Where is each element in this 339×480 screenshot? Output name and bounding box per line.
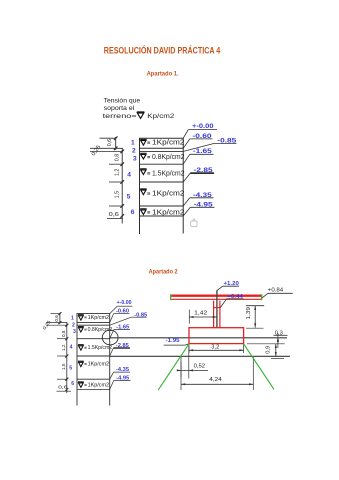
svg-text:1Kp/cm2: 1Kp/cm2 — [152, 191, 185, 198]
svg-text:0,6: 0,6 — [58, 384, 68, 389]
svg-text:1Kp/cm2: 1Kp/cm2 — [88, 362, 110, 368]
hand cursor — [191, 219, 198, 227]
svg-text:0,9: 0,9 — [266, 346, 272, 354]
svg-text:0,8: 0,8 — [115, 154, 121, 161]
elevation callout -2.85 (diagram 1) — [183, 167, 214, 182]
svg-text:3,2: 3,2 — [211, 345, 219, 351]
soil column 1 left wall — [139, 138, 141, 234]
svg-text:1Kp/cm2: 1Kp/cm2 — [88, 382, 110, 388]
svg-text:0,25: 0,25 — [91, 144, 103, 157]
svg-text:0,52: 0,52 — [194, 364, 206, 370]
footing rectangle (red) — [189, 328, 244, 344]
dim chain 2: ticks — [58, 312, 61, 315]
column 1 stratum boundary -0.85 — [140, 150, 184, 152]
svg-text:1,5: 1,5 — [61, 363, 66, 370]
svg-text:1,5: 1,5 — [115, 191, 121, 198]
pedestal right wall (red) — [219, 301, 221, 328]
elevation callout -1.65 (diagram 2) — [110, 325, 130, 339]
pedestal left wall (red) — [213, 301, 215, 328]
elevation callout -0.60 (diagram 1) — [183, 133, 212, 149]
elevation callout -4.35 (diagram 1) — [183, 192, 213, 206]
column 2 top line — [77, 313, 111, 315]
svg-text:+-0.00: +-0.00 — [117, 300, 132, 306]
dim 0,9 (right vertical) — [266, 344, 284, 359]
svg-text:1Kp/cm2: 1Kp/cm2 — [88, 315, 110, 321]
svg-text:+-0.00: +-0.00 — [192, 123, 214, 130]
elevation +0.84 — [262, 287, 293, 297]
svg-text:1: 1 — [131, 140, 135, 147]
column 1 stratum boundary -4.95 — [140, 215, 184, 217]
svg-text:3: 3 — [73, 329, 76, 335]
beam top flange (red) — [171, 295, 262, 297]
svg-text:0,6: 0,6 — [107, 139, 113, 146]
svg-text:6: 6 — [71, 381, 74, 387]
green spread line left — [158, 344, 189, 390]
soil column 1 right wall — [182, 138, 184, 233]
beam bottom line (red) — [171, 298, 262, 300]
svg-text:4,24: 4,24 — [209, 377, 222, 383]
svg-text:0,6: 0,6 — [54, 315, 59, 322]
column 1 top line (level 0.00) — [139, 137, 184, 139]
detail circle at -1.65 — [102, 330, 118, 345]
svg-text:4: 4 — [127, 171, 131, 178]
stratum label row: sigma = 0.8Kp/cm2 — [140, 153, 146, 159]
dim chain 1: extension lines — [100, 137, 117, 139]
elevation callout -4.95 (diagram 1) — [183, 201, 214, 216]
column axis line — [216, 290, 218, 328]
svg-text:1Kp/cm2: 1Kp/cm2 — [152, 140, 185, 147]
elevation callout -4.35 (diagram 2) — [110, 367, 130, 379]
green tick at beam right end — [261, 294, 263, 300]
dim 4,24 — [181, 357, 253, 390]
stratum label row: sigma = 1Kp/cm2 — [140, 189, 146, 195]
elevation callout -0.60 (diagram 2) — [110, 309, 130, 323]
svg-text:soporta el: soporta el — [104, 105, 135, 112]
svg-text:Kp/cm2: Kp/cm2 — [147, 113, 175, 120]
column 1 stratum boundary -1.65 — [140, 163, 184, 165]
column 2 stratum boundary -4.95 — [77, 389, 110, 391]
elevation callout +-0.00 (diagram 1) — [183, 123, 217, 138]
column 2 stratum boundary -0.85 — [77, 324, 110, 326]
elevation callout -2.85 (diagram 2) — [110, 343, 130, 356]
svg-text:6: 6 — [131, 209, 135, 216]
svg-text:-1.95: -1.95 — [166, 338, 180, 344]
stratum label row 2: sigma = 1Kp/cm2 — [78, 361, 84, 366]
svg-text:3: 3 — [133, 155, 137, 162]
column 1 stratum boundary -4.35 — [140, 205, 184, 207]
column 2 stratum boundary -2.85 — [77, 355, 110, 357]
ground line -2.85 extended — [110, 355, 290, 357]
dim chain 1: ticks — [114, 136, 118, 140]
stratum label row 2: sigma = 1Kp/cm2 — [78, 382, 84, 387]
column 1 stratum boundary -2.85 — [140, 181, 184, 183]
svg-text:0,6: 0,6 — [109, 212, 119, 218]
dim 3,2 — [189, 344, 244, 353]
dim chain 2: vertical lower — [66, 322, 68, 393]
green tick at beam left end — [170, 294, 172, 300]
elevation -1.95 — [164, 338, 189, 345]
dim 0,52 — [177, 346, 208, 379]
dim chain 2: extension lines — [51, 313, 61, 315]
svg-text:1: 1 — [71, 315, 74, 321]
svg-text:5: 5 — [69, 366, 72, 372]
stratum label row: sigma = 1Kp/cm2 — [140, 139, 146, 145]
stratum label row 2: sigma = 1Kp/cm2 — [78, 315, 84, 320]
svg-text:5: 5 — [127, 194, 131, 201]
dim chain 2: vertical upper — [59, 313, 61, 324]
stratum label row: sigma = 1.5Kp/cm2 — [140, 169, 146, 175]
elevation callout -4.95 (diagram 2) — [110, 375, 131, 389]
svg-text:Apartado 2: Apartado 2 — [149, 268, 178, 275]
elevation callout -1.65 (diagram 1) — [183, 148, 213, 164]
soil column 2 left wall — [76, 314, 78, 406]
svg-text:1,2: 1,2 — [61, 344, 66, 351]
svg-text:Apartado 1.: Apartado 1. — [147, 70, 179, 77]
stratum label row 2: sigma = 0.8Kp/cm2 — [78, 327, 84, 332]
svg-text:+0.84: +0.84 — [268, 287, 283, 293]
svg-text:terreno=: terreno= — [103, 113, 137, 120]
svg-text:1.5Kp/cm2: 1.5Kp/cm2 — [152, 170, 185, 177]
svg-text:1,2: 1,2 — [115, 169, 121, 176]
elevation +1.20 — [217, 281, 239, 290]
stratum label row: sigma = 1Kp/cm2 — [140, 209, 146, 215]
pedestal rung (red) — [213, 307, 221, 309]
soil column 2 right wall — [109, 314, 111, 406]
svg-text:0,25: 0,25 — [42, 319, 52, 331]
svg-text:0,8: 0,8 — [61, 330, 66, 337]
elevation callout -0.85 (diagram 2) — [110, 312, 148, 325]
svg-text:1,42: 1,42 — [194, 310, 207, 316]
svg-text:1,39: 1,39 — [246, 307, 252, 320]
column 2 stratum boundary -1.65 — [77, 338, 110, 340]
svg-text:0.8Kp/cm2: 0.8Kp/cm2 — [152, 154, 185, 161]
svg-text:4: 4 — [70, 344, 73, 350]
elevation callout -0.85 (diagram 1) — [183, 137, 237, 151]
elevation +0.44 — [220, 294, 243, 308]
svg-text:2: 2 — [72, 323, 75, 329]
ground line -1.65 extended — [110, 337, 287, 339]
column 2 stratum boundary -4.35 — [77, 378, 110, 380]
green spread line right — [244, 344, 274, 390]
svg-text:RESOLUCIÓN DAVID PRÁCTICA 4: RESOLUCIÓN DAVID PRÁCTICA 4 — [104, 45, 221, 56]
dim 0,3 (right) — [247, 330, 288, 348]
elevation callout +-0.00 (diagram 2) — [110, 300, 133, 313]
dim chain 1: vertical line upper — [115, 137, 117, 150]
column 1 stratum boundary -0.60 — [140, 147, 184, 149]
svg-text:2: 2 — [132, 147, 136, 154]
dim chain 1: vertical line lower — [121, 148, 123, 224]
svg-text:1Kp/cm2: 1Kp/cm2 — [152, 209, 185, 216]
column 2 stratum boundary -0.60 — [77, 322, 110, 324]
dim 1,42 — [189, 310, 217, 324]
stratum label row 2: sigma = 1.5Kp/cm2 — [78, 345, 84, 350]
svg-text:Tensión que: Tensión que — [104, 98, 141, 105]
svg-text:1.5Kp/cm2: 1.5Kp/cm2 — [88, 345, 113, 351]
dim 1,39 (vertical) — [246, 306, 264, 329]
